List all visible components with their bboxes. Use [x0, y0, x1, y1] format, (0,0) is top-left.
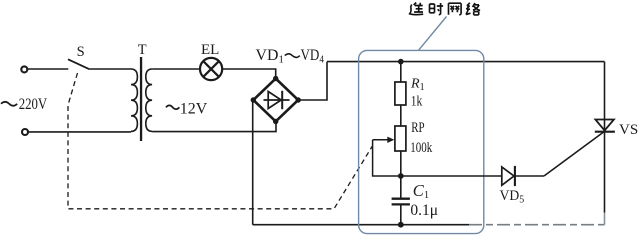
label 延时网络 (hand-drawn glyphs) — [409, 3, 480, 15]
wire lamp to bridge top corner — [223, 69, 276, 79]
bridge corner junction dots — [251, 76, 301, 124]
wire bridge negative corner down to bottom rail — [252, 100, 254, 225]
svg-text:T: T — [138, 42, 147, 58]
wire top rail down to VS anode — [604, 62, 606, 132]
switch linkage dashed wire — [68, 73, 372, 209]
svg-text:S: S — [77, 44, 85, 60]
svg-text:100k: 100k — [410, 140, 433, 156]
terminal bottom-left — [22, 129, 28, 135]
wire top terminal to switch — [27, 68, 68, 70]
junction dot RP/C1/VD5 node — [398, 173, 404, 179]
bridge inner diode — [264, 91, 290, 109]
wire R1 to RP — [400, 105, 402, 126]
wire secondary bottom to bridge bottom corner — [152, 122, 276, 132]
svg-text:EL: EL — [201, 42, 219, 58]
络 — [466, 3, 480, 15]
svg-text:VS: VS — [619, 122, 638, 138]
top rail — [327, 61, 605, 63]
svg-text:VD5: VD5 — [500, 188, 525, 206]
pointer line to box — [419, 17, 447, 51]
transformer T primary winding — [131, 69, 137, 131]
resistor R1 — [395, 82, 406, 105]
switch S blade — [68, 59, 89, 69]
网 — [449, 3, 462, 15]
svg-text:VD4: VD4 — [301, 47, 325, 66]
svg-text:R1: R1 — [410, 76, 425, 93]
时 — [430, 3, 444, 15]
wire RP to C1 — [400, 151, 402, 199]
wire C1 to bottom rail — [400, 204, 402, 224]
wire bridge positive corner riser to top rail — [298, 62, 327, 100]
wire node to VD5 — [401, 175, 502, 177]
svg-text:RP: RP — [411, 120, 424, 136]
junction dot C1 bottom rail — [398, 222, 404, 228]
transformer T core — [140, 57, 142, 141]
lamp EL — [200, 58, 222, 80]
svg-text:1k: 1k — [411, 93, 423, 109]
svg-text:12V: 12V — [180, 100, 208, 117]
wire secondary top to lamp — [152, 68, 199, 70]
wire VD5 to gate bend — [515, 175, 544, 177]
svg-text:220V: 220V — [19, 96, 48, 113]
diode VD5 — [502, 166, 515, 186]
延 — [409, 3, 423, 15]
transformer T secondary winding — [146, 69, 152, 131]
wire switch to transformer — [88, 68, 131, 70]
terminal top-left — [21, 66, 27, 72]
bottom rail solid part — [253, 224, 469, 226]
svg-text:VD1: VD1 — [256, 47, 285, 66]
bottom rail watermark-faded part — [469, 224, 605, 226]
wire gate diagonal to VS — [544, 132, 604, 177]
capacitor C1 plates — [392, 199, 410, 205]
bridge rectifier VD1-VD4 diamond — [253, 79, 298, 122]
junction dot top rail / R1 — [398, 59, 404, 65]
svg-text:C1: C1 — [413, 181, 429, 201]
thyristor VS — [595, 120, 615, 132]
wire VS cathode down — [604, 132, 606, 213]
label ~220V — [1, 102, 17, 106]
delay network box — [359, 50, 484, 233]
wire VS cathode faded to bottom rail — [604, 213, 606, 225]
label ~12V — [166, 105, 179, 109]
wire bottom terminal to transformer — [28, 131, 131, 133]
potentiometer RP wiper arrow — [373, 137, 398, 176]
svg-text:0.1μ: 0.1μ — [410, 202, 438, 219]
wire top rail to R1 — [400, 62, 402, 82]
potentiometer RP body — [395, 126, 406, 151]
